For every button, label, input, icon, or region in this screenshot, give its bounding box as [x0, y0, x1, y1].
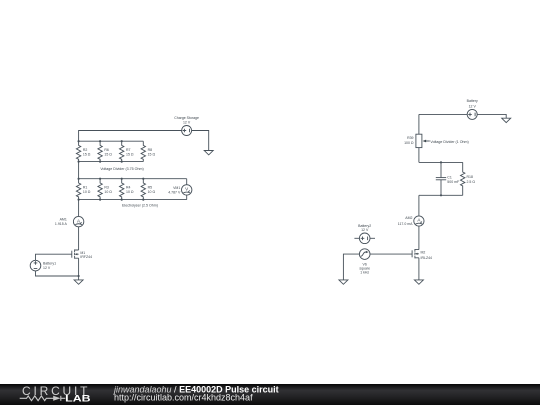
svg-text:15 Ω: 15 Ω [126, 152, 134, 156]
svg-text:Voltage Divider (1 Ohm): Voltage Divider (1 Ohm) [430, 140, 468, 144]
svg-text:R8: R8 [148, 148, 153, 152]
svg-text:R7: R7 [126, 148, 131, 152]
junction at (78.6,276.0) [78, 275, 80, 277]
svg-text:Battery: Battery [467, 99, 478, 103]
svg-text:LAB: LAB [65, 393, 90, 403]
svg-text:M2: M2 [421, 251, 426, 255]
wire: top rail from left column to Charge Storage [79, 131, 182, 142]
wire: row2 top rail [79, 178, 187, 180]
ground (Battery) [502, 118, 511, 122]
wire: V6 to M2 gate [370, 253, 412, 255]
wire: AM2 to M2 drain [418, 226, 420, 250]
ammeter AM1 [73, 216, 83, 226]
schematic text labels [43, 99, 478, 275]
svg-text:100 Ω: 100 Ω [404, 141, 414, 145]
svg-text:AM2: AM2 [405, 216, 412, 220]
svg-text:R5: R5 [148, 185, 153, 189]
wire: parallel section top rail [419, 161, 463, 163]
svg-text:R2: R2 [83, 148, 88, 152]
junction at (100.1,199.6) [99, 199, 101, 201]
svg-text:12 V: 12 V [43, 266, 51, 270]
svg-text:15 Ω: 15 Ω [148, 152, 156, 156]
junction at (78.6,199.6) [78, 199, 80, 201]
svg-text:Electrolyser (2.5 Ohm): Electrolyser (2.5 Ohm) [122, 204, 158, 208]
annotation arrow: Voltage Divider (1 Ohm) [423, 140, 430, 143]
resistor R6 [98, 141, 102, 161]
svg-text:1 kHz: 1 kHz [360, 271, 369, 275]
junction at (121.7,178.7) [121, 178, 123, 180]
svg-text:10 Ω: 10 Ω [148, 190, 156, 194]
battery "Charge Storage" [182, 126, 192, 136]
resistor R18 [461, 162, 465, 195]
svg-text:Charge Storage: Charge Storage [174, 116, 199, 120]
wire: Battery to ground [477, 114, 506, 118]
svg-text:10 Ω: 10 Ω [104, 190, 112, 194]
svg-text:10 Ω: 10 Ω [126, 190, 134, 194]
wire: parallel section bottom rail [419, 194, 463, 196]
svg-text:12 V: 12 V [469, 104, 477, 108]
junction at (121.7,141.2) [121, 140, 123, 142]
junction at (100.1,141.2) [99, 140, 101, 142]
ground (M1 source) [74, 280, 83, 284]
wire: right battery rail [419, 113, 467, 115]
svg-text:15 Ω: 15 Ω [83, 152, 91, 156]
wire: row2 bottom rail [79, 199, 187, 201]
logo resistor+diode symbol [20, 396, 66, 401]
wire: M1 source down [78, 258, 80, 280]
wire: row1 bottom rail [79, 161, 144, 163]
transistor M2 (NMOS) [412, 249, 419, 258]
svg-text:R18: R18 [467, 175, 473, 179]
svg-text:12 V: 12 V [183, 121, 191, 125]
junction at (121.7,199.6) [121, 199, 123, 201]
ground (V6) [339, 280, 348, 284]
svg-text:4.787 V: 4.787 V [168, 191, 181, 195]
svg-text:Voltage Divider (3.75 Ohm): Voltage Divider (3.75 Ohm) [100, 167, 143, 171]
svg-text:R3: R3 [104, 185, 109, 189]
transistor M1 (NMOS) [72, 249, 79, 258]
svg-text:R1: R1 [83, 185, 88, 189]
resistor R7 [119, 141, 123, 161]
junction at (143.3,199.6) [142, 199, 144, 201]
junction at (441.0,162.4) [440, 161, 442, 163]
junction at (121.7,161.6) [121, 161, 123, 163]
wire: Charge Storage to ground [192, 131, 209, 151]
junction at (100.1,178.7) [99, 178, 101, 180]
svg-text:R39: R39 [407, 136, 413, 140]
junction at (78.6,178.7) [78, 178, 80, 180]
svg-text:12 V: 12 V [361, 228, 369, 232]
svg-text:VM1: VM1 [173, 186, 180, 190]
wire: R39 to parallel section [418, 148, 420, 163]
junction at (78.6,161.6) [78, 161, 80, 163]
svg-text:117.0 mA: 117.0 mA [398, 222, 413, 226]
wire: M1 gate to Battery1 [36, 254, 72, 260]
svg-text:R4: R4 [126, 185, 131, 189]
ground (Charge Storage) [204, 151, 213, 155]
resistor R4 [119, 179, 123, 200]
wire: battery rail to R39 [418, 114, 420, 134]
wire: AM1 to M1 drain [78, 227, 80, 250]
capacitor C1 [436, 162, 446, 195]
svg-text:15 Ω: 15 Ω [104, 152, 112, 156]
battery Battery2 (floating) [354, 233, 375, 244]
resistor R39 (box) [416, 134, 422, 147]
junction at (78.6,141.2) [78, 140, 80, 142]
svg-text:1.915 A: 1.915 A [55, 222, 68, 226]
svg-text:2.5 Ω: 2.5 Ω [467, 180, 476, 184]
svg-text:500 mF: 500 mF [447, 180, 459, 184]
wire: M2 source to ground [418, 258, 420, 280]
wire: left rail between divider rows [78, 162, 80, 179]
junction at (100.1,161.6) [99, 161, 101, 163]
resistor R1 [76, 179, 80, 200]
footer bar [0, 384, 540, 405]
resistor R8 [141, 141, 145, 161]
ammeter AM2 [414, 216, 424, 226]
wire: Battery1 to M1 source node [36, 271, 79, 276]
resistor R3 [98, 179, 102, 200]
svg-text:AM1: AM1 [60, 217, 67, 221]
junction at (441.0,195.3) [440, 194, 442, 196]
ground (M2 source) [414, 280, 423, 284]
svg-text:10 Ω: 10 Ω [83, 190, 91, 194]
voltmeter VM1 [182, 179, 192, 200]
wire: parallel section to AM2 [418, 195, 420, 216]
source V6 (square wave) [359, 249, 370, 260]
wire: row2 to ammeter AM1 [78, 200, 80, 217]
svg-text:R6: R6 [104, 148, 109, 152]
svg-text:IRFZ44: IRFZ44 [80, 255, 92, 259]
resistor R5 [141, 179, 145, 200]
svg-text:IRLZ44: IRLZ44 [421, 256, 433, 260]
resistor R2 [76, 141, 80, 161]
wire: V6 to ground [343, 254, 359, 280]
junction at (143.3,178.7) [142, 178, 144, 180]
wire: row1 top rail [79, 140, 144, 142]
svg-text:http://circuitlab.com/cr4khdz8: http://circuitlab.com/cr4khdz8ch4af [114, 392, 253, 402]
battery "Battery" [467, 109, 477, 119]
battery Battery1 [30, 260, 41, 271]
